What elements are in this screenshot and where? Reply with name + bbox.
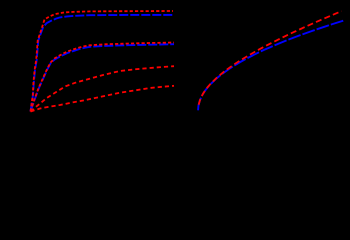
right plot blue sqrt curve [198,21,343,111]
left plot curve 2 blue (saturates y~44) [31,44,175,111]
right plot red dashed curve (diverges above blue) [199,11,342,105]
left plot curve 3 red dashed (saturates y~66) [31,66,175,111]
left plot curve 1 red dashed (top, saturates y~11) [31,11,174,112]
left plot curve 2 red dashed (saturates y~42.5) [31,43,175,112]
left plot curve 4 red dashed (lowest, y~86 at right) [31,86,175,112]
left plot curve 1 blue (top, saturates y~15) [31,15,175,112]
